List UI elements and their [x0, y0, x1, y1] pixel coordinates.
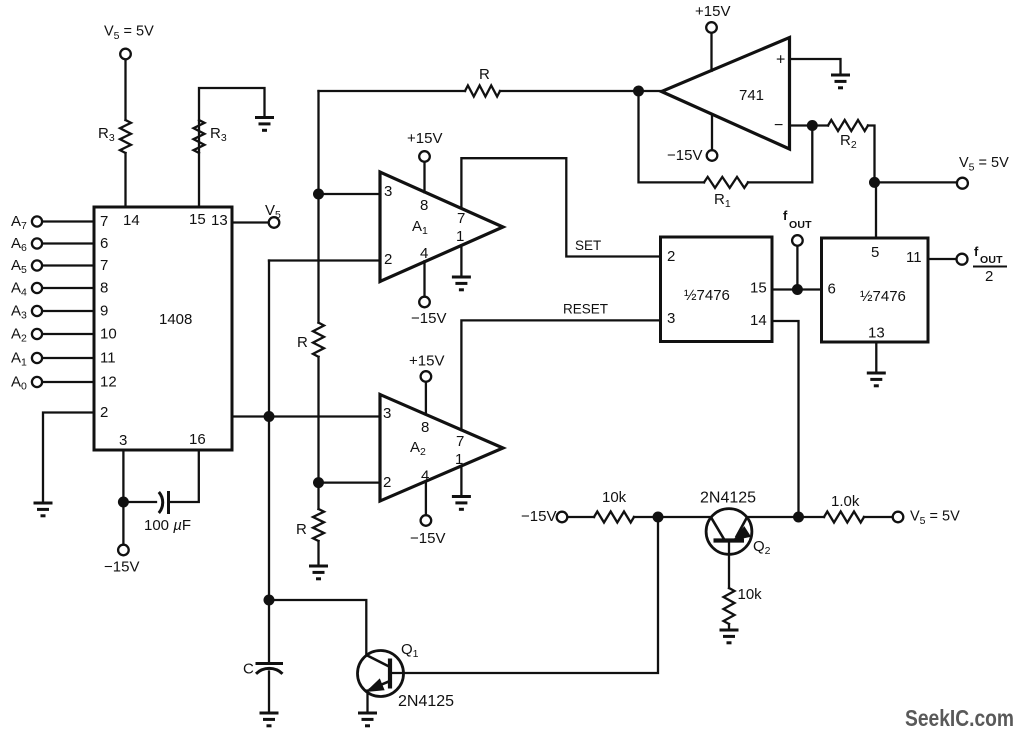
svg-text:100 µF: 100 µF: [144, 517, 191, 534]
svg-text:14: 14: [750, 312, 767, 329]
svg-text:SeekIC.com: SeekIC.com: [905, 705, 1014, 731]
svg-text:1.0k: 1.0k: [831, 493, 860, 510]
svg-text:3: 3: [383, 405, 391, 422]
svg-text:741: 741: [739, 87, 764, 104]
svg-text:3: 3: [384, 183, 392, 200]
svg-text:7: 7: [456, 433, 464, 450]
svg-text:2: 2: [383, 474, 391, 491]
svg-text:2N4125: 2N4125: [398, 693, 454, 710]
svg-text:−15V: −15V: [411, 310, 446, 327]
svg-text:15: 15: [750, 280, 767, 297]
svg-text:1: 1: [456, 228, 464, 245]
svg-text:11: 11: [906, 249, 922, 266]
svg-text:13: 13: [211, 212, 228, 229]
svg-text:15: 15: [189, 211, 206, 228]
svg-text:1408: 1408: [159, 311, 192, 328]
svg-text:8: 8: [420, 197, 428, 214]
svg-text:SET: SET: [575, 238, 601, 253]
svg-text:16: 16: [189, 431, 206, 448]
svg-text:OUT: OUT: [980, 254, 1003, 266]
svg-text:+15V: +15V: [409, 353, 444, 370]
svg-text:+15V: +15V: [407, 130, 442, 147]
svg-text:4: 4: [420, 245, 428, 262]
svg-text:10k: 10k: [602, 489, 627, 506]
svg-text:12: 12: [100, 374, 117, 391]
svg-text:−15V: −15V: [410, 530, 445, 547]
svg-text:½7476: ½7476: [860, 288, 906, 305]
svg-text:8: 8: [100, 280, 108, 297]
svg-text:V5 = 5V: V5 = 5V: [104, 24, 154, 43]
svg-text:14: 14: [123, 212, 140, 229]
svg-text:10: 10: [100, 326, 117, 343]
svg-text:10k: 10k: [738, 586, 763, 603]
svg-text:−: −: [774, 117, 783, 134]
svg-text:3: 3: [667, 310, 675, 327]
svg-text:2N4125: 2N4125: [700, 490, 756, 507]
svg-text:f: f: [974, 244, 979, 259]
svg-text:−15V: −15V: [667, 147, 702, 164]
svg-text:2: 2: [985, 268, 993, 285]
svg-text:5: 5: [871, 244, 879, 261]
svg-text:7: 7: [457, 210, 465, 227]
svg-text:2: 2: [667, 248, 675, 265]
svg-text:−15V: −15V: [104, 559, 139, 576]
svg-text:f: f: [783, 208, 788, 223]
svg-text:6: 6: [100, 235, 108, 252]
svg-text:R: R: [479, 66, 490, 83]
svg-text:C: C: [243, 661, 254, 678]
svg-text:R: R: [296, 521, 307, 538]
svg-text:4: 4: [421, 468, 429, 485]
svg-text:1: 1: [455, 451, 463, 468]
svg-text:R: R: [297, 334, 308, 351]
svg-text:V5 = 5V: V5 = 5V: [959, 155, 1009, 174]
svg-text:8: 8: [421, 419, 429, 436]
svg-text:RESET: RESET: [563, 302, 608, 317]
svg-text:7: 7: [100, 213, 108, 230]
svg-text:6: 6: [828, 281, 836, 298]
svg-text:OUT: OUT: [789, 219, 812, 231]
svg-text:V5 = 5V: V5 = 5V: [910, 509, 960, 528]
svg-text:2: 2: [100, 404, 108, 421]
svg-text:7: 7: [100, 257, 108, 274]
svg-text:2: 2: [384, 251, 392, 268]
svg-text:11: 11: [100, 350, 116, 367]
svg-text:½7476: ½7476: [684, 287, 730, 304]
svg-text:+: +: [776, 52, 785, 69]
svg-text:9: 9: [100, 303, 108, 320]
svg-text:13: 13: [868, 325, 885, 342]
svg-text:+15V: +15V: [695, 3, 730, 20]
svg-text:3: 3: [119, 432, 127, 449]
svg-text:−15V: −15V: [521, 508, 556, 525]
